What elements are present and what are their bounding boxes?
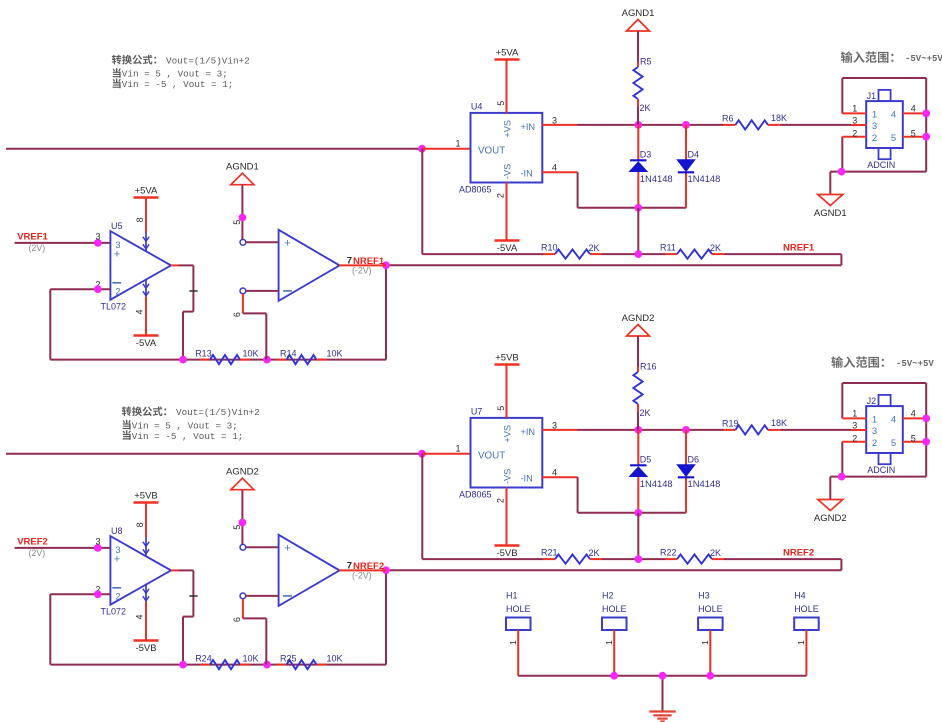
svg-text:+5VA: +5VA [496, 48, 519, 59]
svg-text:R19: R19 [722, 419, 739, 429]
wire inverting input [50, 593, 110, 595]
node +IN / clamp D-b [682, 121, 690, 129]
power symbol -5VA below U4 [495, 241, 520, 255]
svg-text:(-2V): (-2V) [352, 266, 372, 276]
wire main input net (bottom) [6, 453, 422, 455]
svg-text:+: + [114, 248, 120, 260]
svg-text:TL072: TL072 [101, 607, 127, 617]
svg-text:Vout=(1/5)Vin+2: Vout=(1/5)Vin+2 [176, 407, 260, 418]
pin 4 power chevron [143, 584, 149, 603]
svg-text:18K: 18K [771, 113, 787, 123]
svg-text:10K: 10K [327, 348, 343, 358]
svg-text:-5VA: -5VA [497, 243, 518, 254]
node bus H3 [706, 672, 714, 680]
svg-text:R13: R13 [195, 348, 212, 358]
node feedback mid [263, 661, 271, 669]
op-amp U5 TL072 [101, 221, 172, 312]
op-amp buffer TL072 second half [279, 535, 340, 606]
node divider tap [634, 555, 642, 563]
wire clamp to divider [637, 513, 639, 559]
svg-text:R11: R11 [660, 242, 676, 252]
pin numbers [852, 104, 916, 139]
wire +VS pin [506, 365, 508, 418]
svg-text:R24: R24 [195, 653, 212, 663]
svg-text:+: + [284, 543, 290, 555]
wire hole ground bus [518, 676, 806, 712]
svg-text:+5VA: +5VA [135, 186, 158, 197]
pin 8 power chevron [143, 537, 149, 557]
svg-text:1: 1 [700, 640, 710, 645]
wire divider line [422, 454, 841, 571]
svg-text:J2: J2 [867, 396, 877, 406]
svg-text:2: 2 [496, 498, 506, 503]
svg-text:2K: 2K [589, 548, 600, 558]
power symbol -5VA below U5 [134, 336, 159, 350]
svg-text:VREF1: VREF1 [17, 231, 48, 242]
svg-text:4: 4 [911, 104, 916, 114]
wire -IN feedback [542, 172, 686, 208]
wire clamp left vertical [637, 125, 639, 208]
svg-text:2K: 2K [710, 548, 721, 558]
svg-text:HOLE: HOLE [794, 604, 819, 614]
wire clamp right vertical [685, 430, 687, 513]
net label VREF2 (2V) [17, 536, 48, 558]
svg-text:2: 2 [496, 193, 506, 198]
ground symbol AGND1 above buffer [226, 162, 259, 185]
svg-text:R25: R25 [280, 653, 297, 663]
svg-text:1N4148: 1N4148 [688, 173, 721, 184]
pin 4 power chevron [143, 279, 149, 298]
svg-text:VREF2: VREF2 [17, 536, 48, 547]
power symbol +5VB above U7 [495, 353, 520, 365]
svg-text:AGND2: AGND2 [226, 467, 259, 478]
svg-text:18K: 18K [771, 418, 787, 428]
wire -IN feedback [542, 477, 686, 513]
svg-text:J1: J1 [867, 91, 877, 101]
svg-text:1N4148: 1N4148 [640, 173, 673, 184]
svg-text:+: + [114, 553, 120, 565]
svg-text:2: 2 [872, 438, 877, 449]
wire clamp left vertical [637, 430, 639, 513]
mounting hole H1 [506, 590, 531, 675]
svg-text:R14: R14 [280, 348, 297, 358]
svg-text:5: 5 [232, 220, 242, 225]
svg-text:U5: U5 [111, 221, 123, 231]
svg-text:H3: H3 [698, 590, 710, 600]
no-ERC tick [189, 290, 197, 292]
wire -VS pin [506, 488, 508, 546]
wire J1 loop [830, 78, 926, 195]
svg-text:1: 1 [455, 444, 460, 454]
wire clamp to divider [637, 208, 639, 254]
svg-text:4: 4 [135, 309, 145, 314]
wire buffer output [340, 264, 387, 266]
wire NREF2 net [386, 570, 841, 664]
svg-text:NREF1: NREF1 [783, 243, 815, 254]
wire NREF1 net [386, 265, 841, 359]
node pin5 [239, 519, 247, 527]
power symbol +5VA above U4 [495, 48, 520, 60]
wire divider line [422, 149, 841, 266]
svg-text:1N4148: 1N4148 [688, 478, 721, 489]
pin 5 terminal [240, 544, 246, 550]
node pin4 [922, 110, 930, 118]
svg-text:+5VB: +5VB [495, 353, 519, 364]
svg-text:3: 3 [872, 426, 877, 437]
svg-text:2: 2 [872, 133, 877, 144]
wire -VS pin [506, 183, 508, 241]
svg-text:R22: R22 [660, 547, 677, 557]
text input range top [841, 51, 942, 64]
svg-text:AGND1: AGND1 [622, 8, 655, 19]
svg-text:5: 5 [891, 438, 896, 449]
svg-text:H4: H4 [794, 590, 806, 600]
resistor R16 2K vertical [633, 362, 656, 419]
diode D4 1N4148 [677, 150, 720, 184]
wire +IN net [542, 429, 851, 431]
svg-text:AGND1: AGND1 [814, 208, 847, 219]
svg-text:D4: D4 [688, 150, 700, 160]
node NREF1 junction [382, 261, 390, 269]
svg-text:Vin = 5 , Vout = 3;: Vin = 5 , Vout = 3; [122, 69, 228, 80]
svg-text:-IN: -IN [521, 473, 533, 483]
resistor R14 10K [277, 348, 343, 364]
svg-text:R10: R10 [541, 242, 558, 252]
resistor R10 2K [541, 242, 600, 258]
wire buffer inverting [243, 596, 279, 665]
resistor R24 10K [195, 653, 258, 669]
resistor R6 18K [722, 113, 787, 130]
mounting hole H2 [602, 590, 627, 675]
wire feedback loop [50, 594, 386, 664]
node pin2 [94, 590, 102, 598]
svg-text:5: 5 [232, 525, 242, 530]
svg-text:1: 1 [455, 139, 460, 149]
svg-text:+IN: +IN [521, 427, 536, 437]
svg-text:HOLE: HOLE [602, 604, 627, 614]
svg-text:-IN: -IN [521, 168, 533, 178]
svg-text:5: 5 [911, 433, 916, 443]
svg-text:10K: 10K [243, 653, 259, 663]
svg-text:4: 4 [135, 614, 145, 619]
wire buffer inverting [243, 291, 279, 360]
ground symbol AGND2 above buffer [226, 467, 259, 490]
node ground corner [838, 473, 846, 481]
wire R to +IN line [637, 107, 639, 125]
wire pin1 stub to U4 [422, 148, 471, 150]
op-amp U7 AD8065 [459, 407, 542, 500]
wire main input net (top) [6, 148, 422, 150]
wire inverting input [50, 288, 110, 290]
ground symbol earth GND [649, 712, 675, 722]
pin 6 terminal [240, 288, 246, 294]
svg-text:2K: 2K [710, 243, 721, 253]
ground symbol AGND1 above R5 [622, 8, 655, 31]
svg-text:2: 2 [115, 591, 120, 601]
svg-text:5: 5 [891, 133, 896, 144]
svg-text:R6: R6 [722, 114, 734, 124]
svg-text:VOUT: VOUT [478, 450, 505, 461]
wire ground to buffer + [242, 490, 278, 548]
svg-text:1: 1 [852, 104, 857, 114]
svg-text:3: 3 [872, 121, 877, 132]
power symbol +5VA above U5 [134, 186, 159, 198]
svg-text:(2V): (2V) [29, 243, 46, 253]
svg-text:AD8065: AD8065 [459, 490, 492, 500]
node feedback mid [263, 356, 271, 364]
wire VREF2 input [15, 547, 111, 549]
svg-text:-VS: -VS [503, 164, 513, 179]
node +IN / clamp D-b [682, 426, 690, 434]
no-ERC tick [189, 595, 197, 597]
pin 5 terminal [240, 239, 246, 245]
wire pin8 power [145, 198, 147, 233]
node pin4 [922, 415, 930, 423]
svg-text:6: 6 [232, 617, 242, 622]
svg-text:Vin = 5 , Vout = 3;: Vin = 5 , Vout = 3; [132, 420, 238, 431]
resistor R25 10K [277, 653, 343, 669]
resistor R13 10K [195, 348, 258, 364]
svg-text:AGND2: AGND2 [814, 513, 847, 524]
svg-text:+: + [284, 238, 290, 250]
op-amp U4 AD8065 [459, 102, 542, 195]
svg-text:4: 4 [891, 415, 896, 426]
power symbol -5VB below U8 [134, 641, 159, 655]
net label 7NREF2 (-2V) [347, 560, 384, 580]
node VREF pin3 [94, 544, 102, 552]
svg-text:Vout=(1/5)Vin+2: Vout=(1/5)Vin+2 [166, 55, 250, 66]
svg-text:U8: U8 [111, 526, 123, 536]
svg-text:ADCIN: ADCIN [867, 465, 895, 475]
node feedback left [179, 356, 187, 364]
svg-text:R16: R16 [640, 362, 657, 372]
power symbol +5VB above U8 [134, 491, 159, 503]
wire ground to buffer + [242, 185, 278, 243]
node divider tap [634, 250, 642, 258]
mounting hole H4 [794, 590, 819, 675]
wire +VS pin [506, 60, 508, 113]
diode D3 1N4148 [630, 150, 673, 184]
svg-text:10K: 10K [327, 653, 343, 663]
resistor R21 2K [541, 547, 600, 563]
pin numbers [852, 409, 916, 444]
text block formula bottom [122, 406, 260, 441]
wire pin1 stub to U7 [422, 453, 471, 455]
wire stage1 output [171, 570, 193, 664]
op-amp buffer TL072 second half [279, 230, 340, 301]
svg-text:R21: R21 [541, 547, 558, 557]
svg-text:HOLE: HOLE [698, 604, 723, 614]
node +IN / clamp D-a [634, 426, 642, 434]
svg-text:2: 2 [852, 433, 857, 443]
node clamp junction [634, 509, 642, 517]
wire J2 loop [830, 383, 926, 500]
connector J2 ADCIN [866, 395, 903, 475]
wire pin4 power [145, 602, 147, 641]
ground symbol AGND1 below J1 [814, 195, 847, 220]
svg-text:AGND2: AGND2 [622, 313, 655, 324]
svg-text:6: 6 [232, 312, 242, 317]
pin 6 terminal [240, 593, 246, 599]
svg-text:5: 5 [496, 406, 506, 411]
wire pin4 power [145, 297, 147, 336]
diode D6 1N4148 [677, 455, 720, 489]
svg-text:1: 1 [872, 110, 877, 121]
node pin5 [239, 214, 247, 222]
svg-text:-5V~+5V: -5V~+5V [905, 54, 942, 64]
svg-text:AGND1: AGND1 [226, 162, 259, 173]
svg-text:H1: H1 [506, 590, 518, 600]
resistor R19 18K [722, 418, 787, 435]
svg-text:HOLE: HOLE [506, 604, 531, 614]
wire VREF1 input [15, 242, 111, 244]
text block formula top [112, 55, 250, 90]
node VREF pin3 [94, 239, 102, 247]
svg-text:D6: D6 [688, 455, 700, 465]
svg-text:4: 4 [552, 163, 557, 173]
pin stubs [842, 418, 926, 441]
svg-text:NREF2: NREF2 [783, 548, 814, 559]
svg-text:-VS: -VS [503, 469, 513, 484]
svg-text:(2V): (2V) [29, 548, 46, 558]
svg-text:3: 3 [95, 537, 100, 547]
op-amp U8 TL072 [101, 526, 172, 617]
svg-text:5: 5 [496, 101, 506, 106]
svg-text:+5VB: +5VB [134, 491, 158, 502]
node main wire to VOUT junction [418, 145, 426, 153]
node feedback left [179, 661, 187, 669]
svg-text:4: 4 [552, 468, 557, 478]
text input range bottom [831, 356, 934, 369]
node pin2 [94, 285, 102, 293]
svg-text:Vin = -5 , Vout = 1;: Vin = -5 , Vout = 1; [122, 79, 234, 90]
svg-text:2K: 2K [640, 103, 651, 113]
svg-text:-5V~+5V: -5V~+5V [896, 359, 934, 369]
wire pin8 power [145, 503, 147, 538]
node main wire to VOUT junction [418, 450, 426, 458]
svg-text:H2: H2 [602, 590, 614, 600]
svg-text:TL072: TL072 [101, 302, 127, 312]
power symbol -5VB below U7 [495, 546, 520, 560]
svg-text:4: 4 [891, 110, 896, 121]
ground symbol AGND2 above R16 [622, 313, 655, 336]
svg-text:2: 2 [115, 286, 120, 296]
net label VREF1 (2V) [17, 231, 48, 253]
svg-text:-5VA: -5VA [136, 338, 157, 349]
svg-text:R5: R5 [640, 57, 652, 67]
net label 7NREF1 (-2V) [347, 255, 385, 275]
svg-text:1: 1 [604, 640, 614, 645]
wire AGND2 to R16 [637, 336, 639, 367]
svg-text:10K: 10K [243, 348, 259, 358]
node pin5 [922, 133, 930, 141]
pin stubs [842, 113, 926, 136]
wire feedback loop [50, 289, 386, 359]
svg-text:1: 1 [508, 640, 518, 645]
svg-text:1N4148: 1N4148 [640, 478, 673, 489]
svg-text:-5VB: -5VB [135, 643, 156, 654]
svg-text:8: 8 [135, 217, 145, 222]
svg-text:D3: D3 [640, 150, 652, 160]
svg-text:3: 3 [852, 421, 857, 431]
svg-text:2K: 2K [640, 408, 651, 418]
wire stage1 output [171, 265, 193, 359]
svg-text:4: 4 [911, 409, 916, 419]
node bus H2 [610, 672, 618, 680]
resistor R22 2K [660, 547, 721, 563]
svg-text:+IN: +IN [521, 122, 536, 132]
svg-text:+VS: +VS [503, 120, 513, 138]
svg-text:5: 5 [911, 128, 916, 138]
svg-text:(-2V): (-2V) [352, 571, 372, 581]
svg-text:3: 3 [95, 232, 100, 242]
wire clamp right vertical [685, 125, 687, 208]
svg-text:Vin = -5 , Vout = 1;: Vin = -5 , Vout = 1; [132, 431, 244, 442]
wire +IN net [542, 124, 851, 126]
svg-text:VOUT: VOUT [478, 145, 505, 156]
connector J1 ADCIN [866, 90, 903, 170]
svg-text:U7: U7 [471, 407, 483, 417]
node clamp junction [634, 204, 642, 212]
svg-text:1: 1 [852, 409, 857, 419]
svg-text:ADCIN: ADCIN [867, 160, 895, 170]
resistor R11 2K [660, 242, 721, 258]
node +IN / clamp D-a [634, 121, 642, 129]
svg-text:1: 1 [872, 415, 877, 426]
svg-text:D5: D5 [640, 455, 652, 465]
svg-text:3: 3 [852, 116, 857, 126]
node ground corner [838, 168, 846, 176]
svg-text:AD8065: AD8065 [459, 185, 492, 195]
svg-text:8: 8 [135, 522, 145, 527]
svg-text:U4: U4 [471, 102, 483, 112]
mounting hole H3 [698, 590, 723, 675]
svg-text:1: 1 [796, 640, 806, 645]
wire AGND1 to R5 [637, 31, 639, 62]
node pin5 [922, 438, 930, 446]
svg-text:2: 2 [852, 128, 857, 138]
svg-text:+VS: +VS [503, 425, 513, 443]
svg-text:-5VB: -5VB [496, 548, 517, 559]
node bus center [659, 672, 667, 680]
wire buffer output [340, 569, 387, 571]
wire R to +IN line [637, 412, 639, 430]
diode D5 1N4148 [630, 455, 673, 489]
node NREF2 junction [382, 566, 390, 574]
pin 8 power chevron [143, 232, 149, 252]
svg-text:2K: 2K [589, 243, 600, 253]
resistor R5 2K vertical [633, 57, 651, 114]
ground symbol AGND2 below J2 [814, 500, 847, 525]
